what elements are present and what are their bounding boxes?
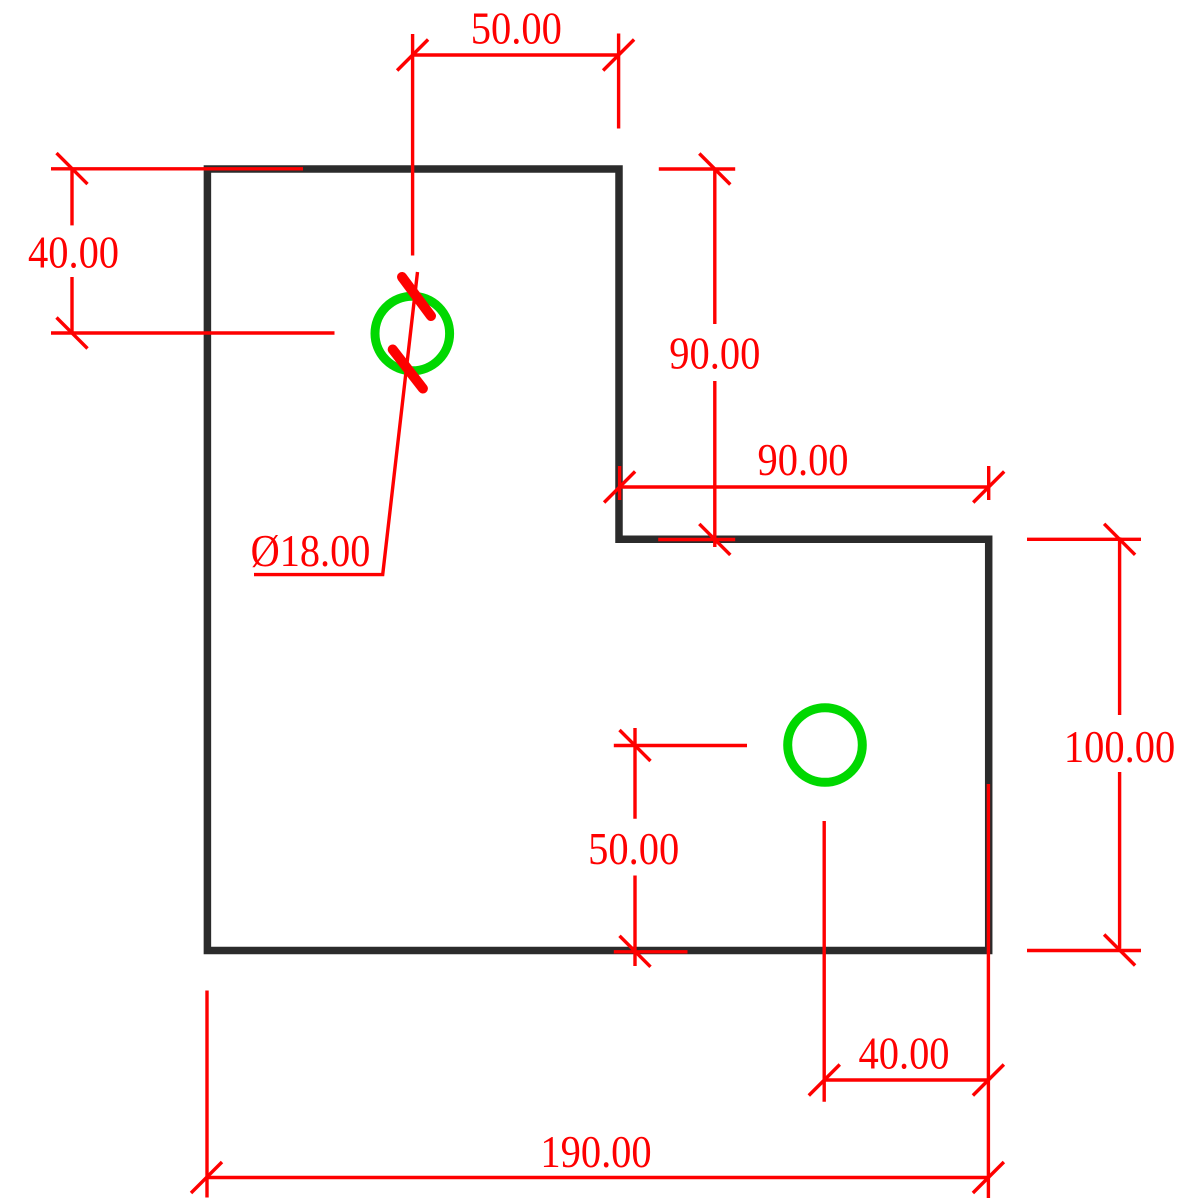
svg-text:50.00: 50.00 bbox=[588, 825, 679, 874]
dim 40.00 left: extension line bottom (through hole H1 center level) bbox=[51, 331, 335, 334]
dim 90.00 vertical: top tick bbox=[699, 154, 730, 185]
dim 190.00 bottom: dimension line bbox=[207, 1176, 989, 1179]
dim 90.00 horizontal: extension line left (below inner corner) bbox=[618, 466, 621, 500]
dim 90.00 horizontal: extension line right (above right corner) bbox=[987, 466, 990, 500]
part outline (stepped L-plate) bbox=[207, 169, 988, 951]
dim 40.00 bottom: dimension line bbox=[824, 1078, 988, 1081]
dim 50.00 top: left tick bbox=[397, 40, 428, 71]
dim 100.00 right: top tick bbox=[1104, 524, 1135, 555]
dim 40.00 left: dimension line upper segment bbox=[70, 169, 73, 226]
dim 90.00 horizontal: right tick bbox=[973, 472, 1004, 503]
dia dim: thick tick upper on hole H1 bbox=[402, 277, 431, 316]
svg-text:50.00: 50.00 bbox=[471, 5, 562, 54]
dim 90.00 horizontal: left tick bbox=[604, 472, 635, 503]
dim 90.00 horizontal: dimension line bbox=[619, 485, 989, 488]
svg-text:40.00: 40.00 bbox=[858, 1030, 949, 1079]
dim 90.00 vertical: dimension line lower segment bbox=[713, 381, 716, 547]
dim 50.00 middle: top tick bbox=[620, 730, 651, 761]
dim 40.00 left: dimension line lower segment bbox=[70, 277, 73, 333]
dim 90.00 vertical: extension line top (right of top edge) bbox=[659, 167, 735, 170]
dim 100.00 right: bottom tick bbox=[1104, 935, 1135, 966]
hole H1 (circle d18) bbox=[375, 296, 450, 371]
dim 50.00 top: extension line right (from top-right corner up) bbox=[617, 34, 620, 129]
svg-text:Ø18.00: Ø18.00 bbox=[251, 527, 371, 577]
dim 190.00 bottom: right tick bbox=[973, 1162, 1004, 1193]
dim 50.00 top: dimension line bbox=[413, 53, 619, 56]
svg-text:90.00: 90.00 bbox=[757, 436, 848, 485]
svg-text:190.00: 190.00 bbox=[540, 1128, 651, 1177]
dim 40.00 bottom: right tick bbox=[973, 1065, 1004, 1096]
dim 50.00 middle: bottom tick bbox=[620, 936, 651, 967]
hole H2 (circle d18) bbox=[788, 708, 863, 783]
dim 50.00 middle: dimension line lower segment bbox=[633, 876, 636, 967]
dim 90.00 vertical: bottom tick bbox=[699, 524, 730, 555]
dia dim: thick tick lower on hole H1 bbox=[393, 350, 423, 389]
dim 190.00 bottom: left tick bbox=[191, 1162, 222, 1193]
dim 100.00 right: extension line top (right of step edge) bbox=[1027, 538, 1141, 541]
svg-text:90.00: 90.00 bbox=[669, 330, 760, 379]
dim 50.00 top: right tick bbox=[603, 40, 634, 71]
dim 90.00 vertical: dimension line upper segment bbox=[713, 169, 716, 324]
dim 190.00 bottom: extension line left bbox=[205, 991, 208, 1198]
dim 40.00 bottom: extension line left (from hole H2 down) bbox=[823, 821, 826, 1102]
dim 40.00 left: top tick bbox=[57, 153, 88, 184]
dim 40.00 bottom: left tick bbox=[809, 1065, 840, 1096]
dim 100.00 right: extension line bottom (right of bottom edge) bbox=[1027, 949, 1141, 952]
dia dim leader: diagonal through hole H1 bbox=[254, 272, 418, 575]
dim 100.00 right: dimension line upper segment bbox=[1118, 537, 1121, 715]
dim 50.00 middle: extension line bottom (over bottom edge) bbox=[614, 950, 688, 953]
dim 40.00 left: extension line top (over top edge) bbox=[51, 167, 303, 170]
dim 100.00 right: dimension line lower segment bbox=[1118, 772, 1121, 949]
svg-text:100.00: 100.00 bbox=[1064, 723, 1175, 772]
dim 40.00 left: bottom tick bbox=[57, 318, 88, 349]
dim 50.00 middle: dimension line upper segment bbox=[633, 728, 636, 819]
dim 90.00 vertical: extension line bottom (over step edge) bbox=[658, 538, 735, 541]
svg-text:40.00: 40.00 bbox=[28, 229, 119, 278]
dim 50.00 top: extension line left (from hole H1 up) bbox=[411, 34, 414, 256]
dim 40.00 bottom: extension line right (over right edge, down) bbox=[987, 784, 990, 1198]
dim 50.00 middle: extension line top (left of hole H2) bbox=[614, 744, 747, 747]
